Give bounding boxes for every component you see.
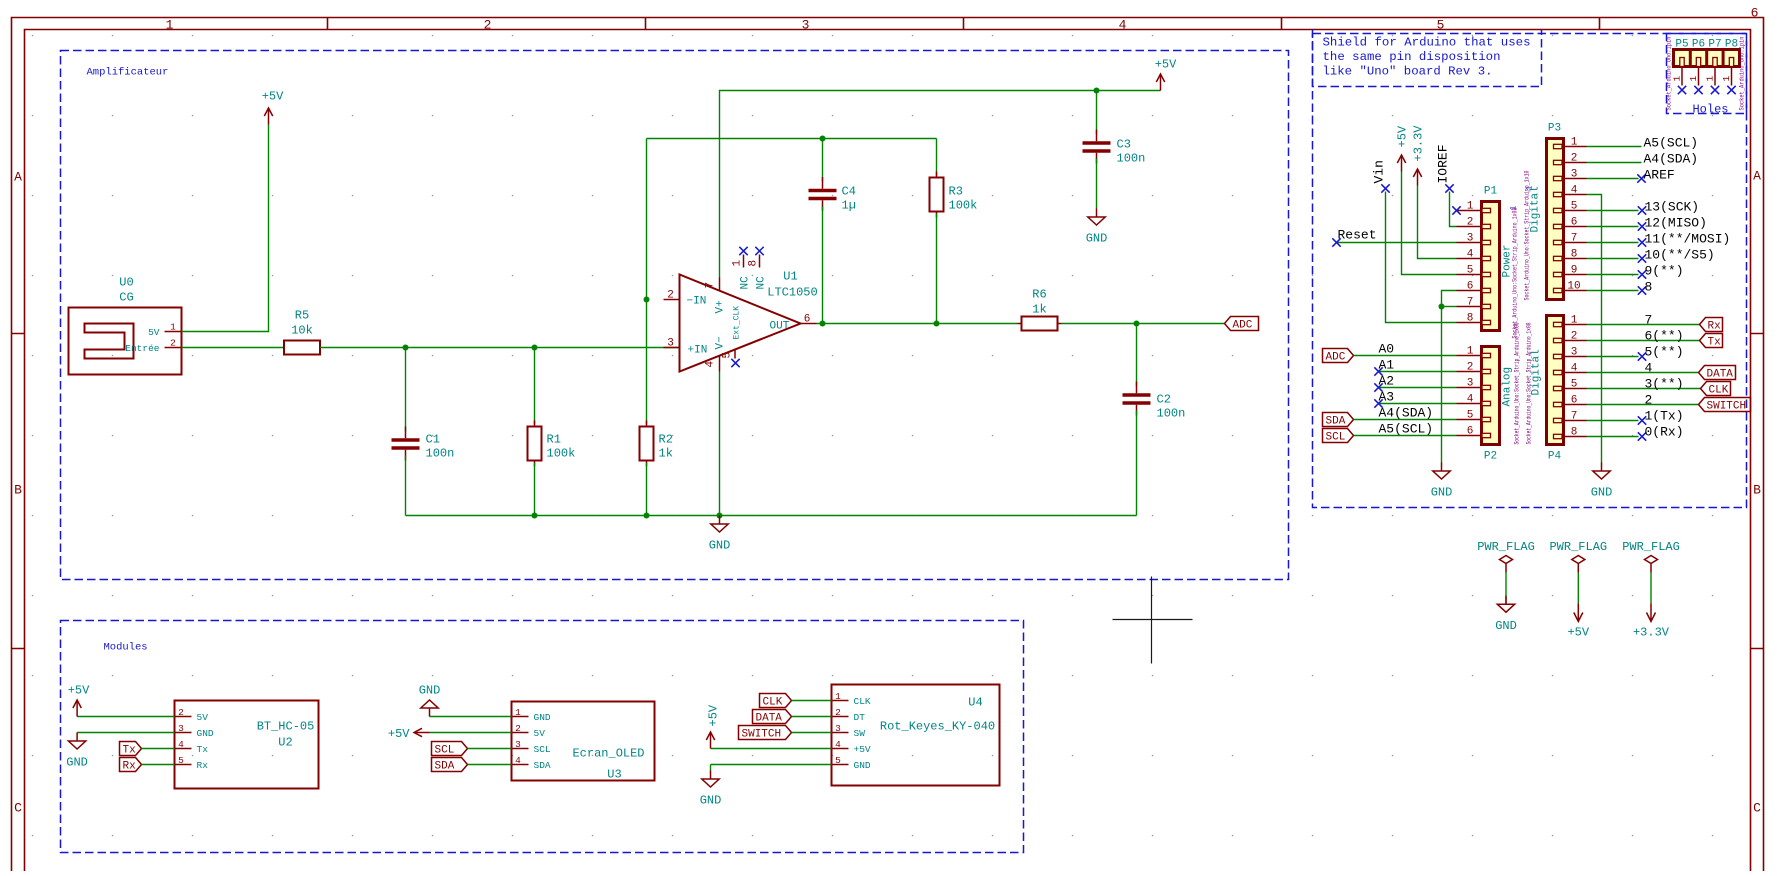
svg-text:3: 3 [515,739,521,750]
svg-text:SWITCH: SWITCH [742,729,782,741]
svg-text:GND: GND [419,684,441,698]
wire C1 top [405,348,407,432]
wire R2 bottom [646,463,648,516]
resistor R6 [1018,288,1062,331]
op-amp pin 3 +IN [664,347,680,349]
svg-text:+3.3V: +3.3V [1412,125,1426,162]
svg-text:Tx: Tx [1708,337,1722,349]
svg-text:7: 7 [705,282,717,289]
wire C1 bottom [405,456,407,516]
wire P4 pin5 to CLK [1587,377,1701,392]
svg-text:SCL: SCL [534,744,551,755]
svg-text:R2: R2 [659,433,673,447]
svg-text:2: 2 [1645,393,1653,408]
wire U3 GND [430,716,512,718]
wire P3 pin 6 12(MISO) [1587,216,1707,231]
svg-text:6: 6 [1467,426,1474,438]
svg-text:7: 7 [1645,313,1653,328]
svg-text:2: 2 [170,338,176,349]
svg-text:100n: 100n [426,447,455,461]
svg-text:6: 6 [1751,6,1759,21]
connector P2 pin 3 [1482,385,1491,389]
wire P3 pin2 A4(SDA) [1587,152,1699,167]
svg-text:CG: CG [119,291,133,305]
connector P3 pin 6 [1554,224,1563,228]
wire ground bus [406,515,1137,517]
connector P3 pin 8 [1554,256,1563,260]
svg-text:10(**/S5): 10(**/S5) [1645,248,1715,263]
svg-text:12(MISO): 12(MISO) [1645,216,1707,231]
svg-text:A: A [14,170,22,185]
wire P3 pin1 A5(SCL) [1587,136,1699,151]
op-amp pin 1 NC [743,255,745,268]
op-amp pin 5 Ext_CLK [734,350,736,359]
module U3 pin 1 (GND) [512,716,529,718]
svg-text:Socket_Arduino_Uno:Socket_Stri: Socket_Arduino_Uno:Socket_Strip_Arduino_… [1524,170,1531,300]
wire A1 [1374,358,1456,376]
Amplificateur section dashed box [61,51,1289,580]
svg-text:+5V: +5V [388,727,410,741]
Modules section dashed box [61,621,1024,853]
hole P6 pin 1 stub [1688,67,1703,95]
sheet crosshair marker [1113,577,1193,664]
svg-text:5: 5 [835,755,841,766]
svg-text:GND: GND [709,539,731,553]
svg-text:+5V: +5V [262,90,284,104]
wire SCL to P2 pin6 [1354,422,1457,437]
wire P4 pin3 [1587,345,1684,361]
svg-text:V−: V− [715,336,727,349]
svg-text:Amplificateur: Amplificateur [87,67,169,79]
svg-text:Socket_Arduino_Uno:Socket_Stri: Socket_Arduino_Uno:Socket_Strip_Arduino_… [1526,322,1533,444]
svg-text:8: 8 [748,260,760,267]
svg-text:6: 6 [1571,395,1578,407]
junction at C3 [1094,88,1100,94]
svg-text:PWR_FLAG: PWR_FLAG [1549,540,1607,554]
svg-text:5: 5 [1467,410,1474,422]
wire P1 pin3 Reset [1337,242,1457,244]
svg-text:GND: GND [534,712,551,723]
svg-text:Rx: Rx [197,760,209,771]
global label SCL [432,742,468,757]
svg-text:Rot_Keyes_KY-040: Rot_Keyes_KY-040 [880,720,995,734]
global label Tx [120,742,142,757]
frame row ticks [12,334,1764,649]
svg-text:SCL: SCL [1326,432,1346,444]
svg-text:2: 2 [835,707,841,718]
wire R1 bottom [534,463,536,516]
wire P4 pin6 to SWITCH [1587,393,1699,408]
svg-text:Socket_Arduino_Uno:Socket_Stri: Socket_Arduino_Uno:Socket_Strip_Arduino_… [1512,207,1519,338]
svg-text:P1: P1 [1484,186,1498,198]
svg-text:1k: 1k [1032,303,1046,317]
svg-text:CLK: CLK [854,696,871,707]
wire P3 pin 5 13(SCK) [1587,200,1700,215]
wire P3 pin 7 11(**/MOSI) [1587,232,1731,247]
wire U3 5V [430,732,512,734]
svg-text:+5V: +5V [1567,626,1589,640]
svg-text:6(**): 6(**) [1645,329,1684,344]
svg-text:B: B [1753,483,1761,498]
connector P4 pin 6 [1554,402,1563,406]
P3 footprint text [1524,170,1531,300]
svg-text:1: 1 [732,260,744,267]
svg-text:1: 1 [1571,137,1578,149]
wire C3 top [1096,91,1098,135]
wire P4 pin1 to Rx [1587,313,1700,328]
svg-text:Holes: Holes [1692,103,1728,117]
svg-text:GND: GND [700,794,722,808]
connector P1 pin 5 [1482,272,1491,276]
module U4 pin 1 (CLK) [832,700,849,702]
svg-text:1: 1 [515,707,521,718]
svg-text:Socket_Arduino_Uno:1pin: Socket_Arduino_Uno:1pin [1739,36,1746,110]
svg-text:4: 4 [1119,18,1127,33]
svg-text:Rx: Rx [123,761,137,773]
svg-text:+3.3V: +3.3V [1633,626,1670,640]
svg-text:A3: A3 [1379,390,1395,405]
PWR_FLAG +3.3V [1622,540,1680,640]
Holes footprint text left [1666,36,1673,110]
svg-text:P3: P3 [1548,123,1561,135]
svg-text:1: 1 [1688,76,1699,82]
svg-text:GND: GND [854,760,871,771]
svg-text:100k: 100k [547,447,576,461]
ground (inverted) at U3 [419,684,441,717]
svg-text:100n: 100n [1157,407,1186,421]
op-amp pin 8 NC [759,255,761,268]
module U4 pin 4 (+5V) [832,748,849,750]
junction bus R2 [644,513,650,519]
global label DATA (right) [1699,366,1736,381]
wire U2 5V [77,716,174,718]
connector P2 pin 5 [1482,417,1491,421]
svg-text:Analog: Analog [1502,367,1514,407]
svg-text:1: 1 [1705,76,1716,82]
svg-text:8: 8 [1645,280,1653,295]
Holes dashed box [1667,34,1747,114]
module U2 pin 3 (GND) [175,732,192,734]
junction at R1 [532,345,538,351]
svg-text:3: 3 [1467,233,1474,245]
Amplificateur section label [87,67,169,79]
svg-text:DATA: DATA [756,713,783,725]
svg-text:5V: 5V [148,327,160,338]
hole P7 pin 1 stub [1705,67,1720,95]
connector P1 body [1457,186,1500,331]
svg-text:B: B [14,483,22,498]
svg-text:A5(SCL): A5(SCL) [1644,136,1699,151]
svg-text:GND: GND [197,728,214,739]
svg-text:+5V: +5V [854,744,871,755]
connector P3 pin 1 [1554,144,1563,148]
svg-text:3: 3 [802,18,810,33]
svg-text:R6: R6 [1032,288,1046,302]
wire SDA to P2 pin5 [1354,406,1457,421]
svg-text:like "Uno" board Rev 3.: like "Uno" board Rev 3. [1323,65,1493,79]
svg-text:R1: R1 [547,433,561,447]
svg-text:Tx: Tx [123,745,137,757]
sensor U0 pin 2 (Entree) [165,347,182,349]
svg-text:4: 4 [515,755,521,766]
connector P3 pin 4 [1554,192,1563,196]
wire P1 pin8 to Vin [1386,192,1457,323]
svg-text:+5V: +5V [1396,125,1410,147]
svg-text:8: 8 [1571,249,1578,261]
svg-text:GND: GND [1431,486,1453,500]
svg-text:A0: A0 [1379,342,1395,357]
connector P1 pin 7 [1482,304,1491,308]
wire opamp V- down to ground bus [719,372,721,516]
svg-text:DATA: DATA [1707,369,1734,381]
svg-text:OUT: OUT [770,321,790,333]
wire U4 GND [711,765,832,771]
svg-text:6: 6 [804,314,811,326]
svg-text:AREF: AREF [1644,168,1675,183]
svg-text:0(Rx): 0(Rx) [1645,425,1684,440]
module U4 pin 3 (SW) [832,732,849,734]
global label ADC (output) [1225,317,1259,332]
svg-text:C: C [1753,801,1761,816]
wire P4 pin2 to Tx [1587,329,1700,344]
svg-text:4: 4 [1645,361,1653,376]
svg-text:A2: A2 [1379,374,1395,389]
shield dashed box [1313,34,1747,508]
wire P1 pin5 to +5V [1402,172,1457,275]
IOREF no-connect and label [1436,144,1454,192]
svg-text:5V: 5V [197,712,209,723]
junction bus R1 [532,513,538,519]
svg-text:LTC1050: LTC1050 [767,286,817,300]
svg-text:ADC: ADC [1233,320,1253,332]
power symbol +5V (left) [262,90,284,125]
connector P2 pin 1 [1482,353,1491,357]
resistor R3 [930,172,978,218]
op-amp pin 2 -IN [664,299,680,301]
svg-text:IOREF: IOREF [1436,144,1451,183]
wire U0 pin1 to +5V [182,125,269,332]
wire C2 top [1136,324,1138,387]
global label SWITCH [739,726,792,741]
ground below P2 [1431,463,1453,500]
connector P3 body [1547,123,1587,300]
module U2 pin 4 (Tx) [175,748,192,750]
frame column numbers [166,6,1759,33]
svg-text:U3: U3 [607,768,621,782]
svg-text:1µ: 1µ [842,199,856,213]
Reset label and no-connect [1332,228,1376,247]
connector P2 pin 4 [1482,401,1491,405]
svg-text:+5V: +5V [1155,58,1177,72]
wire P1 pin2 to IOREF [1450,192,1457,227]
svg-text:4: 4 [1467,394,1474,406]
ground at bus [709,516,731,553]
capacitor C4 [809,177,856,213]
svg-text:+5V: +5V [707,704,721,726]
blue pin1 mark near P1 [1510,206,1519,211]
connector P3 pin 7 [1554,240,1563,244]
power symbol +3.3V at P1 [1412,125,1426,186]
svg-text:C2: C2 [1157,393,1171,407]
frame column ticks [328,18,1600,30]
svg-text:1k: 1k [659,447,673,461]
PWR_FLAG +5V [1549,540,1607,640]
wire A3 [1374,390,1456,408]
svg-text:100n: 100n [1117,152,1146,166]
svg-text:DT: DT [854,712,866,723]
junction at -IN [644,297,650,303]
svg-text:P4: P4 [1548,451,1562,463]
wire ADC to P2 pin1 [1354,342,1457,357]
wire R1 top [534,348,536,425]
svg-text:Digital: Digital [1530,186,1542,232]
svg-text:C4: C4 [842,185,856,199]
svg-text:A4(SDA): A4(SDA) [1379,406,1434,421]
svg-text:3: 3 [1571,347,1578,359]
svg-text:PWR_FLAG: PWR_FLAG [1477,540,1535,554]
svg-text:8: 8 [1467,313,1474,325]
wire A2 [1374,374,1456,392]
label Digital (P3) [1530,186,1542,232]
connector P1 pin 8 [1482,320,1491,324]
svg-text:A5(SCL): A5(SCL) [1379,422,1434,437]
svg-text:SW: SW [854,728,866,739]
svg-text:Vin: Vin [1372,160,1387,183]
hole P5 pin 1 stub [1672,67,1687,95]
module U3 pin 2 (5V) [512,732,529,734]
frame row letters [14,169,1761,816]
svg-text:5: 5 [1437,18,1445,33]
svg-text:Tx: Tx [197,744,209,755]
power symbol +5V (rail) [1155,58,1177,91]
svg-text:8: 8 [1571,427,1578,439]
svg-text:C3: C3 [1117,138,1131,152]
svg-text:11(**/MOSI): 11(**/MOSI) [1645,232,1731,247]
svg-text:2: 2 [515,723,521,734]
svg-text:13(SCK): 13(SCK) [1645,200,1700,215]
svg-text:1: 1 [1571,315,1578,327]
junction out at R3 [934,321,940,327]
svg-text:−IN: −IN [687,296,707,308]
svg-text:100k: 100k [949,199,978,213]
global label Rx (right) [1700,318,1723,333]
ground below P4 [1591,463,1613,500]
wire U2 GND [77,732,174,734]
svg-text:Reset: Reset [1338,228,1377,243]
junction at C2 [1134,321,1140,327]
wire CLK to U4 [792,700,832,702]
svg-text:ADC: ADC [1326,352,1346,364]
sensor U0 CG body [69,276,182,375]
svg-text:2: 2 [1467,217,1474,229]
wire DATA to U4 [792,716,832,718]
capacitor C3 [1083,130,1146,166]
capacitor C1 [392,427,455,461]
svg-text:+IN: +IN [688,345,708,357]
note box with text [1313,30,1542,87]
svg-text:SDA: SDA [1326,416,1346,428]
svg-text:Ecran_OLED: Ecran_OLED [572,747,644,761]
svg-text:10k: 10k [291,324,313,338]
svg-text:GND: GND [66,756,88,770]
connector P4 pin 7 [1554,418,1563,422]
connector P4 pin 4 [1554,370,1563,374]
global label Rx [120,758,142,773]
wire Tx to U2 [142,748,175,750]
sensor U0 pin 1 (5V) [165,331,182,333]
global label ADC (input) [1323,349,1354,364]
op-amp pin 5 no-connect X [731,359,739,367]
label Analog [1502,367,1514,407]
wire U0 pin2 to R5 [182,347,285,349]
svg-text:C1: C1 [426,433,440,447]
module U2 pin 5 (Rx) [175,764,192,766]
svg-text:R5: R5 [295,309,309,323]
svg-text:BT_HC-05: BT_HC-05 [257,720,315,734]
svg-text:GND: GND [1086,232,1108,246]
power symbol +5V (left-pointing) at U3 [388,727,430,741]
connector P3 pin 5 [1554,208,1563,212]
power symbol +5V (rotated) at U4 [706,704,720,748]
capacitor C2 [1123,382,1186,421]
svg-text:5: 5 [1467,265,1474,277]
svg-text:4: 4 [1571,363,1578,375]
connector P3 pin 10 [1554,288,1563,292]
connector P3 pin 2 [1554,160,1563,164]
svg-text:7: 7 [1467,297,1474,309]
op-amp pin 6 OUT [801,323,817,325]
svg-text:5: 5 [178,755,184,766]
svg-text:4: 4 [835,739,841,750]
svg-text:PWR_FLAG: PWR_FLAG [1622,540,1680,554]
wire P3 pin 9 9(**) [1587,264,1684,279]
svg-text:SWITCH: SWITCH [1707,401,1747,413]
wire P3 pin 8 10(**/S5) [1587,248,1715,263]
wire Rx to U2 [142,764,175,766]
P4 footprint text [1526,322,1533,444]
op-amp pin 4 V- [719,356,721,372]
op-amp U1 LTC1050 triangle [664,247,818,372]
svg-text:U2: U2 [278,736,292,750]
svg-text:3: 3 [667,338,674,350]
svg-text:9: 9 [1571,265,1578,277]
connector P1 pin 4 [1482,256,1491,260]
Holes footprint text right [1739,36,1746,110]
connector P1 pin 1 [1482,208,1491,212]
label Power [1502,244,1514,277]
svg-text:2: 2 [178,707,184,718]
wire opamp output row [817,323,1018,325]
wire C4 top [822,139,824,182]
wire C3 bottom [1096,159,1098,209]
svg-text:4: 4 [178,739,184,750]
svg-text:4: 4 [1467,249,1474,261]
op-amp pin 7 V+ [719,278,721,292]
Vin no-connect and label [1372,160,1390,193]
svg-text:10: 10 [1567,281,1580,293]
wire P4 pin4 to DATA [1587,361,1699,376]
wire P4 pin8 [1587,425,1684,441]
svg-text:2: 2 [1467,362,1474,374]
svg-text:6: 6 [1571,217,1578,229]
junction at C1 [403,345,409,351]
svg-text:1: 1 [170,322,176,333]
wire U4 +5V [711,748,832,750]
module U2 pin 2 (5V) [175,716,192,718]
wire P1 pin4 to +3.3V [1418,186,1457,259]
wire P1 pin7 [1442,306,1457,308]
ground at U4 [700,771,722,808]
